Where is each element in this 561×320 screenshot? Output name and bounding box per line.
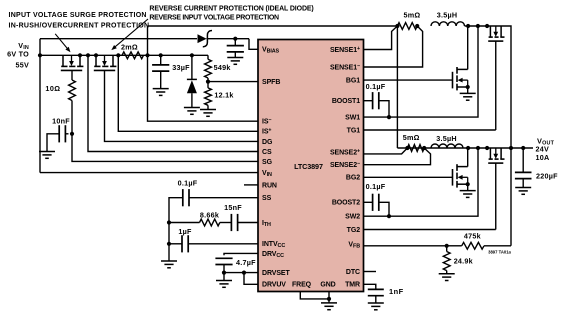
wire VIN pin route <box>40 172 258 174</box>
svg-text:SENSE2+: SENSE2+ <box>330 148 360 156</box>
wire DRVCC route <box>224 253 258 255</box>
ground VBIAS bypass <box>227 57 243 59</box>
junction sense1 right <box>415 24 419 28</box>
resistor 24.9k <box>446 246 448 252</box>
ground Q5 <box>460 190 476 192</box>
wire SG route <box>72 134 258 162</box>
svg-text:INPUT VOLTAGE SURGE PROTECTION: INPUT VOLTAGE SURGE PROTECTION <box>9 12 147 19</box>
svg-text:RUN: RUN <box>262 182 277 189</box>
wire RUN stub <box>244 184 258 186</box>
svg-text:CS: CS <box>262 149 272 156</box>
wire Q4 source to ground <box>467 87 469 93</box>
svg-text:15nF: 15nF <box>224 203 242 212</box>
leader arrow to Q1 <box>55 34 68 50</box>
wire TG1 route <box>364 129 496 131</box>
svg-text:FREQ: FREQ <box>292 282 312 289</box>
junction 2mOhm right <box>145 53 149 57</box>
wire VFB route <box>364 245 447 247</box>
wire DG route from Q2 gate <box>105 70 259 141</box>
resistor 2mOhm shunt <box>122 52 144 59</box>
svg-text:SENSE1−: SENSE1− <box>330 63 360 71</box>
svg-text:33µF: 33µF <box>172 63 190 72</box>
wire GND down <box>328 292 330 299</box>
capacitor VBIAS bypass <box>234 39 236 46</box>
svg-text:REVERSE INPUT VOLTAGE PROTECTI: REVERSE INPUT VOLTAGE PROTECTION <box>149 15 279 22</box>
svg-text:SG: SG <box>262 159 273 166</box>
capacitor 15nF <box>220 222 232 224</box>
wire input sense top rail <box>148 25 399 27</box>
ground Q4 <box>460 92 476 94</box>
wire TMR route <box>364 284 376 289</box>
junction IS+ tap <box>116 53 120 57</box>
wire Q5 drain to SW2 node <box>467 148 469 167</box>
junction 33uF tap <box>159 53 163 57</box>
svg-text:DRVSET: DRVSET <box>262 270 290 277</box>
ground 12.1k <box>200 109 216 111</box>
junction VIN rail <box>38 53 42 57</box>
inductor 3.5uH channel1 <box>431 22 465 26</box>
svg-text:BG2: BG2 <box>346 175 360 182</box>
junction sense2 right <box>422 146 426 150</box>
svg-text:3897 TA01a: 3897 TA01a <box>488 250 511 255</box>
svg-text:475k: 475k <box>464 232 481 241</box>
wire input rail <box>40 54 208 56</box>
wire SW1 route <box>364 26 479 117</box>
wire gnd stem drv <box>223 273 225 281</box>
resistor 5mOhm channel2 <box>407 145 424 152</box>
wire VIN vertical <box>39 39 41 173</box>
svg-text:4.7µF: 4.7µF <box>236 258 256 267</box>
ground 33uF <box>153 88 169 90</box>
wire BG1 route <box>364 79 453 81</box>
wire 10Ohm to 10nF node <box>71 101 73 134</box>
wire VIN to ideal diode <box>40 38 197 40</box>
junction Q5 source <box>466 182 470 186</box>
wire kelvin SENSE2+ <box>364 148 408 154</box>
resistor 475k <box>447 245 462 247</box>
wire FREQ down <box>300 292 329 299</box>
ground clamp diode <box>184 107 200 109</box>
wire ITH route <box>238 222 258 224</box>
svg-text:DG: DG <box>262 139 273 146</box>
svg-text:DTC: DTC <box>346 269 360 276</box>
inductor 3.5uH channel2 <box>431 144 463 148</box>
junction Q4 source <box>466 85 470 89</box>
wire TG1 gate drop <box>495 41 497 130</box>
svg-text:549k: 549k <box>214 63 231 72</box>
svg-text:BG1: BG1 <box>346 78 360 85</box>
svg-text:220µF: 220µF <box>536 172 558 181</box>
svg-text:TG2: TG2 <box>347 227 361 234</box>
wire SW2 route <box>364 148 479 216</box>
wire channel1 input vertical <box>396 26 398 148</box>
resistor 12.1k <box>205 88 212 105</box>
wire SPFB route <box>208 81 258 83</box>
wire CS route <box>88 55 258 151</box>
ground 1nF <box>368 302 384 304</box>
ground GND pin <box>321 302 337 304</box>
wire DRVSET route <box>224 272 258 274</box>
svg-text:BOOST2: BOOST2 <box>332 200 360 207</box>
capacitor 4.7uF <box>215 257 232 259</box>
svg-text:8.66k: 8.66k <box>200 210 219 219</box>
resistor 10 Ohm <box>69 80 76 101</box>
svg-text:IN-RUSH/OVERCURRENT PROTECTION: IN-RUSH/OVERCURRENT PROTECTION <box>9 22 150 29</box>
junction VBIAS bypass <box>233 37 237 41</box>
svg-text:1µF: 1µF <box>178 227 192 236</box>
leader arrow to Q2 <box>114 19 148 48</box>
wire TG2 gate drop <box>495 163 497 229</box>
wire VOUT output <box>511 147 533 149</box>
transistor Q4 BG1 NFET <box>453 67 468 90</box>
wire gnd stem <box>168 244 170 261</box>
junction clamp diode tap <box>190 53 194 57</box>
svg-text:TMR: TMR <box>345 282 360 289</box>
wire DTC stub <box>364 271 377 273</box>
resistor 549k <box>207 55 209 59</box>
junction SW2 node taps <box>466 146 470 150</box>
svg-text:5mΩ: 5mΩ <box>404 11 421 20</box>
IC right pin labels <box>330 46 360 289</box>
wire channel2 sense rail <box>397 147 511 149</box>
svg-text:0.1µF: 0.1µF <box>366 82 386 91</box>
wire top rail to VOUT <box>465 26 511 246</box>
ground 24.9k <box>439 273 455 275</box>
transistor Q3 TG1 NFET <box>488 26 504 41</box>
svg-text:SW2: SW2 <box>345 214 360 221</box>
junction boost2-SW2 <box>387 214 391 218</box>
ideal diode D1 <box>198 34 207 43</box>
svg-text:0.1µF: 0.1µF <box>366 182 386 191</box>
svg-text:10A: 10A <box>536 153 550 162</box>
wire 2mOhm junction up <box>147 26 149 55</box>
ground 10nF <box>39 151 55 153</box>
svg-text:55V: 55V <box>15 61 29 70</box>
svg-text:GND: GND <box>320 282 335 289</box>
junction sense2 left <box>405 146 409 150</box>
junction INTVCC node <box>167 242 171 246</box>
junction SPFB <box>206 80 210 84</box>
svg-text:REVERSE CURRENT PROTECTION (ID: REVERSE CURRENT PROTECTION (IDEAL DIODE) <box>149 6 313 13</box>
capacitor 1uF INTVCC <box>169 243 182 245</box>
ground DRV network <box>216 280 232 282</box>
ground SS network <box>161 260 177 262</box>
wire Q5 source to ground <box>467 184 469 190</box>
svg-text:SENSE1+: SENSE1+ <box>330 46 360 54</box>
svg-text:5mΩ: 5mΩ <box>403 133 420 142</box>
ground 220uF <box>515 187 531 189</box>
svg-text:10Ω: 10Ω <box>45 84 60 93</box>
wire DRVUV route <box>244 273 258 285</box>
wire kelvin SENSE2- <box>364 148 431 165</box>
svg-text:BOOST1: BOOST1 <box>332 98 360 105</box>
junction sense1 left <box>395 24 399 28</box>
svg-text:2mΩ: 2mΩ <box>121 42 138 51</box>
junction SW1 node taps <box>466 24 470 28</box>
capacitor 33uF input <box>160 55 162 65</box>
wire 10nF to ground <box>47 134 59 152</box>
wire 475k to VOUT rail <box>484 245 511 247</box>
junction 220uF tap <box>521 146 525 150</box>
wire kelvin SENSE1- <box>364 26 423 67</box>
junction DRVUV tee <box>242 271 246 275</box>
IC left pin labels <box>262 47 290 289</box>
op-amp U1: LTC3897 controller IC body <box>258 40 364 292</box>
svg-text:3.5µH: 3.5µH <box>437 11 458 20</box>
resistor 8.66k <box>169 222 200 224</box>
junction ITH node <box>167 220 171 224</box>
svg-text:3.5µH: 3.5µH <box>436 134 457 143</box>
svg-text:6V TO: 6V TO <box>7 50 29 59</box>
transistor Q1 surge protection NFET <box>61 55 84 70</box>
junction GND <box>327 297 331 301</box>
transistor Q5 BG2 NFET <box>453 164 468 187</box>
svg-text:TG1: TG1 <box>347 127 361 134</box>
capacitor 220uF output <box>522 148 524 172</box>
capacitor 1nF timer <box>375 284 377 286</box>
junction VFB node <box>445 244 449 248</box>
wire BG2 route <box>364 176 453 178</box>
junction 10nF node <box>70 132 74 136</box>
svg-text:SENSE2−: SENSE2− <box>330 161 360 169</box>
svg-text:10nF: 10nF <box>52 116 70 125</box>
transistor Q2 reverse input NFET <box>94 55 117 70</box>
diode reverse input clamp <box>191 55 193 79</box>
junction rail <box>78 53 82 57</box>
svg-text:24V: 24V <box>536 144 550 153</box>
svg-text:0.1µF: 0.1µF <box>178 179 198 188</box>
svg-text:24.9k: 24.9k <box>454 256 473 265</box>
wire IS- route <box>148 55 259 121</box>
svg-text:SS: SS <box>262 195 272 202</box>
svg-text:DRVUV: DRVUV <box>262 282 286 289</box>
wire Q4 drain to SW node <box>467 26 469 69</box>
resistor 5mOhm channel1 <box>397 23 417 30</box>
svg-text:12.1k: 12.1k <box>214 91 233 100</box>
svg-text:SW1: SW1 <box>345 115 360 122</box>
wire IS+ route <box>118 55 258 131</box>
svg-text:1nF: 1nF <box>389 287 404 296</box>
svg-text:LTC3897: LTC3897 <box>294 162 323 171</box>
wire Q1 gate down <box>71 70 73 80</box>
wire kelvin SENSE1+ <box>364 26 398 50</box>
wire TG2 route <box>364 229 496 231</box>
wire ideal diode to VBIAS <box>207 38 236 40</box>
junction VOUT rail <box>509 146 513 150</box>
junction 4.7uF gnd node <box>222 271 226 275</box>
transistor Q6 TG2 NFET <box>488 148 504 163</box>
svg-text:SPFB: SPFB <box>262 79 280 86</box>
junction boost1-SW1 <box>387 115 391 119</box>
